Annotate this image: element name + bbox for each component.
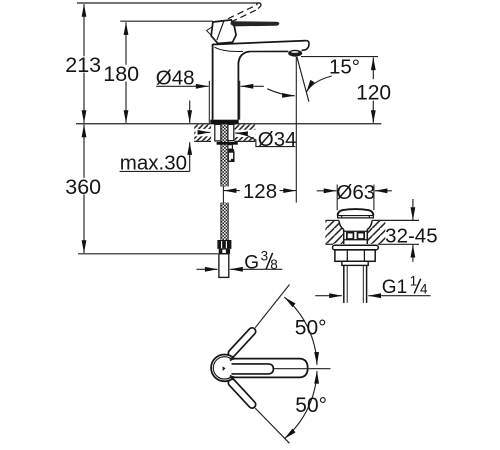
extension line (180 upper ref) xyxy=(120,20,213,22)
svg-text:360: 360 xyxy=(65,175,101,199)
raised lever tip xyxy=(256,3,261,9)
deck underside lines xyxy=(194,140,211,142)
raised handle base (thin outline) xyxy=(207,21,234,44)
drain deck surfaces xyxy=(325,219,339,221)
spout underside xyxy=(250,50,288,52)
handle base housing xyxy=(211,20,236,44)
dimension 180 xyxy=(125,22,127,65)
dimension 32-45 xyxy=(412,199,414,220)
rotated lever upper xyxy=(227,326,257,358)
body inner contour line xyxy=(215,47,244,51)
raised lever (dashed) xyxy=(219,5,257,23)
svg-text:50°: 50° xyxy=(295,394,327,417)
svg-text:1: 1 xyxy=(410,273,418,288)
dimension 213 xyxy=(83,4,85,56)
body circle inner xyxy=(213,357,235,379)
faucet body left edge xyxy=(212,44,214,120)
connection tube xyxy=(219,254,229,278)
svg-text:4: 4 xyxy=(420,281,428,296)
svg-text:213: 213 xyxy=(65,53,101,77)
rotated lever lower xyxy=(227,378,257,410)
extension line G3/8 level (360 lower ref) xyxy=(78,253,218,255)
dimension 120 xyxy=(301,56,378,58)
stream line 15deg xyxy=(297,57,309,102)
base plate xyxy=(210,120,238,124)
drain collar xyxy=(342,261,368,265)
svg-text:15°: 15° xyxy=(329,55,360,78)
mounting washer xyxy=(217,142,238,145)
svg-text:G: G xyxy=(244,253,259,274)
arc 50 lower xyxy=(284,371,317,439)
svg-text:32-45: 32-45 xyxy=(385,224,437,247)
Ø34 annotation xyxy=(198,131,210,133)
housing crease xyxy=(217,21,224,40)
white gaps for Ø34 arrows xyxy=(196,129,211,136)
supply hose lower segment xyxy=(221,203,228,241)
drain washer xyxy=(333,245,379,250)
inner fillet and body right edge xyxy=(238,52,250,120)
spout tip xyxy=(302,41,309,51)
drain nut xyxy=(335,250,375,261)
drain dome cap xyxy=(338,209,374,216)
extension line top (213 upper ref) xyxy=(77,2,258,4)
faucet centerline at hose break xyxy=(222,186,224,203)
pivot mark xyxy=(223,366,226,371)
max.30 annotation xyxy=(189,101,191,123)
svg-text:Ø34: Ø34 xyxy=(258,128,297,151)
junction fillets xyxy=(230,359,236,361)
shank walls in deck hole xyxy=(215,124,221,140)
dimension 360 xyxy=(83,125,85,178)
drain body through deck xyxy=(343,229,345,244)
handle swing line upper xyxy=(255,285,289,328)
handle swing line lower xyxy=(255,408,289,443)
faucet top edge xyxy=(213,41,307,45)
svg-text:50°: 50° xyxy=(295,317,327,340)
Ø48 extension lines xyxy=(208,81,210,123)
deck surface line xyxy=(76,123,381,125)
dimension 128 xyxy=(224,190,240,192)
svg-text:max.30: max.30 xyxy=(120,152,187,175)
svg-text:Ø63: Ø63 xyxy=(336,181,375,204)
deck hatch left xyxy=(194,124,211,141)
nut lower step xyxy=(219,249,230,254)
supply hose upper segment xyxy=(221,124,228,186)
axis centerline xyxy=(274,368,331,370)
deck hatch right xyxy=(235,124,256,141)
svg-text:120: 120 xyxy=(356,81,391,104)
G3/8 nut xyxy=(217,240,231,249)
svg-text:180: 180 xyxy=(103,62,139,86)
body circle outer xyxy=(211,355,238,382)
svg-text:G1: G1 xyxy=(382,277,407,298)
svg-text:128: 128 xyxy=(243,180,277,203)
aerator xyxy=(288,50,302,57)
mounting stud and nut xyxy=(228,145,233,149)
spout axis extension line xyxy=(295,57,297,203)
arc 50 upper xyxy=(284,297,317,365)
lever inner contour xyxy=(232,364,274,374)
drain threaded tube xyxy=(343,265,345,303)
lever (solid) xyxy=(230,21,279,26)
drain neck xyxy=(339,220,344,229)
drain deck hatch xyxy=(325,221,343,244)
lever neutral (top view) xyxy=(230,359,308,378)
svg-text:3: 3 xyxy=(261,248,269,263)
